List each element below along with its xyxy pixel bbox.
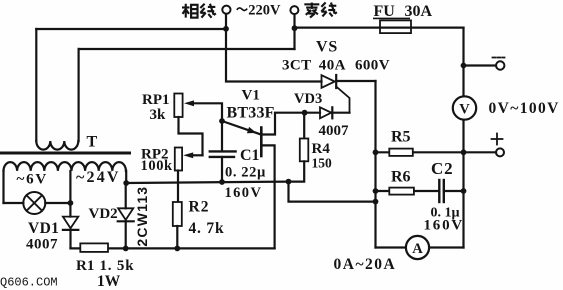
svg-text:40A: 40A <box>319 58 346 74</box>
svg-text:R6: R6 <box>391 169 411 186</box>
wire top rail left (phase) <box>36 28 226 30</box>
terminal minus <box>496 61 504 69</box>
wire bottom to ammeter <box>376 246 406 248</box>
resistor R4 <box>303 113 305 139</box>
svg-text:0V~100V: 0V~100V <box>489 100 560 117</box>
svg-text:R2: R2 <box>189 199 210 216</box>
label ~220V <box>237 8 247 11</box>
wire second rail <box>79 48 295 50</box>
svg-text:1. 5k: 1. 5k <box>100 258 135 274</box>
wire V1 B2 riser <box>262 113 304 135</box>
transformer T primary winding <box>36 141 78 150</box>
minus mark <box>493 57 505 59</box>
resistor R5 <box>376 151 464 153</box>
svg-text:3k: 3k <box>150 107 167 123</box>
wire pulse line to gate column <box>289 182 376 202</box>
node C2 right <box>461 188 467 194</box>
label 相线 <box>182 4 216 18</box>
svg-text:VD1: VD1 <box>28 220 59 237</box>
wire secondary left tap <box>2 171 4 203</box>
svg-text:VD3: VD3 <box>294 91 322 107</box>
wire lamp row <box>4 202 24 204</box>
svg-text:VS: VS <box>316 39 338 56</box>
svg-text:R1: R1 <box>76 258 94 274</box>
label 零线 <box>304 3 337 18</box>
thyristor VS <box>322 75 335 88</box>
node plus <box>461 149 467 155</box>
svg-text:Q606.COM: Q606.COM <box>0 276 58 290</box>
svg-text:600V: 600V <box>355 58 390 74</box>
svg-text:A: A <box>412 241 423 257</box>
capacitor C2 <box>438 180 440 202</box>
wire VS cathode column <box>374 81 376 248</box>
wire left vertical 1 <box>35 29 37 141</box>
svg-text:FU: FU <box>374 3 396 20</box>
svg-text:150: 150 <box>312 156 333 171</box>
node rail R2 <box>174 246 180 252</box>
node phase-rail <box>223 26 229 32</box>
terminal neutral <box>290 6 298 14</box>
svg-text:0. 22µ: 0. 22µ <box>225 164 266 180</box>
transformer T secondary winding <box>4 162 126 171</box>
wire RP1 bottom jog <box>179 117 203 155</box>
svg-text:T: T <box>87 134 98 151</box>
wire neutral drop <box>293 14 295 49</box>
node 24V tap <box>123 180 129 186</box>
node emitter <box>219 118 225 124</box>
node R5 left <box>373 149 379 155</box>
wire secondary right tap <box>125 171 127 183</box>
potentiometer RP2 <box>175 148 182 171</box>
potentiometer RP1 <box>174 94 182 118</box>
svg-text:160V: 160V <box>225 185 263 201</box>
wire phase drop to VS <box>226 14 322 81</box>
svg-text:C2: C2 <box>431 159 453 178</box>
svg-text:V1: V1 <box>242 88 260 104</box>
node VD3 anode <box>302 110 308 116</box>
wire RP2 bottom to R2 <box>177 171 179 203</box>
wire minus branch <box>464 64 497 66</box>
svg-text:~6V: ~6V <box>17 172 49 188</box>
diode VD1 <box>69 203 71 217</box>
resistor R1 <box>80 243 108 252</box>
voltmeter V <box>453 96 476 119</box>
wire lamp to tap <box>45 202 70 204</box>
svg-text:220V: 220V <box>248 3 281 19</box>
transistor V1 emitter <box>222 121 260 134</box>
wire left vertical 2 <box>77 49 79 141</box>
svg-text:VD2: VD2 <box>89 206 118 222</box>
wire neutral to fuse <box>295 27 464 29</box>
terminal plus <box>496 148 504 156</box>
svg-text:1W: 1W <box>97 273 121 290</box>
resistor R6 <box>376 190 440 192</box>
lamp EL <box>23 192 45 214</box>
plus mark <box>496 134 498 145</box>
svg-text:3CT: 3CT <box>282 58 312 74</box>
wire bottom rail <box>71 247 275 249</box>
svg-text:30A: 30A <box>405 3 433 20</box>
svg-text:4007: 4007 <box>319 123 350 139</box>
svg-text:RP1: RP1 <box>142 92 170 108</box>
wire secondary middle tap <box>69 171 71 203</box>
wire right column <box>462 28 464 97</box>
svg-text:BT33F: BT33F <box>227 104 275 121</box>
svg-text:~24V: ~24V <box>76 169 121 186</box>
node R6 left <box>373 188 379 194</box>
wire plus branch <box>464 151 497 153</box>
svg-text:V: V <box>459 102 470 118</box>
svg-text:160V: 160V <box>424 218 465 234</box>
resistor R2 <box>173 202 182 226</box>
node lamp tap <box>68 200 74 206</box>
svg-text:C1: C1 <box>240 147 260 164</box>
capacitor C1 <box>221 121 223 151</box>
transistor V1 BT33F bar <box>260 128 263 157</box>
node C1 bottom <box>219 179 225 185</box>
svg-text:4007: 4007 <box>26 236 58 252</box>
ammeter A <box>406 236 429 259</box>
terminal phase <box>222 6 230 14</box>
svg-text:4. 7k: 4. 7k <box>189 220 225 237</box>
node R4 bottom <box>286 179 292 185</box>
transformer T core <box>1 152 130 155</box>
svg-text:R5: R5 <box>391 128 411 145</box>
node rail VD2 <box>123 246 129 252</box>
zener VD2 2CW113 <box>125 183 127 208</box>
node pulse <box>373 199 379 205</box>
svg-text:100k: 100k <box>141 158 174 174</box>
fuse FU <box>380 20 411 33</box>
wire middle rail (24V dc) <box>126 182 288 183</box>
node neutral-rail <box>292 25 298 31</box>
svg-text:0A~20A: 0A~20A <box>334 256 397 273</box>
diode VD3 <box>305 112 320 114</box>
svg-text:2CW113: 2CW113 <box>134 186 150 247</box>
node minus <box>461 63 467 69</box>
wire V1 B1 down to rail <box>262 145 274 248</box>
